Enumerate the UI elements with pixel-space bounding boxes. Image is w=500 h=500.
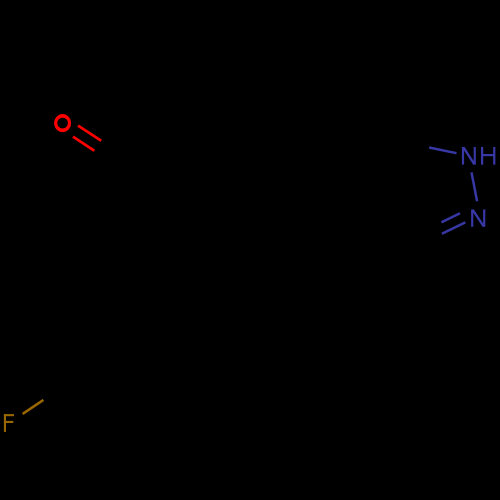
atom label F (fluorine) bbox=[4, 414, 14, 432]
fluorophenyl ring bond C5'-C4' bbox=[200, 297, 204, 370]
bond C7a-N1 blue half bbox=[429, 148, 456, 154]
indazole benzo ring bond C7-C6 bbox=[262, 92, 330, 107]
fluorophenyl ring bond C6'-C5' bbox=[143, 370, 204, 410]
bond C7a-N1 black half bbox=[390, 139, 430, 147]
bond C8-C3' bbox=[133, 168, 135, 264]
indazole ring fusion bond C3a-C7a bbox=[348, 139, 390, 187]
bond N1-N2 (blue) bbox=[472, 172, 478, 201]
bond C3=N2 blue half (main line) bbox=[442, 222, 465, 233]
indazole benzo ring bond C7a-C7 bbox=[330, 92, 390, 139]
fluorophenyl ring bond C1'-C6' bbox=[78, 377, 143, 410]
bond C3=N2 blue half (inner line) bbox=[441, 213, 460, 222]
bond C3=N2 black half (inner line) bbox=[414, 222, 441, 236]
bond F-C1' gold half bbox=[23, 400, 44, 414]
bond C8=O black half (lower line) bbox=[94, 151, 115, 165]
fluorophenyl ring bond C4'-C3' bbox=[135, 264, 200, 297]
indazole benzo ring bond C5-C4 bbox=[248, 160, 296, 205]
bond C3=N2 black half (main line) bbox=[406, 234, 442, 250]
bond C8=O black half (upper line) bbox=[101, 141, 124, 156]
fluorophenyl ring bond C2'-C1' bbox=[74, 304, 78, 377]
atom label N1 letter N (of NH) bbox=[463, 147, 475, 165]
bond C8=O red half (lower line) bbox=[73, 137, 94, 151]
atom label N1 letter H (of NH) bbox=[481, 147, 495, 165]
bond F-C1' black half bbox=[43, 377, 78, 400]
bond C8-C10 bbox=[133, 130, 196, 168]
bond C8=O red half (upper line) bbox=[78, 126, 101, 141]
atom label O (carbonyl oxygen) bbox=[54, 114, 71, 132]
indazole benzo ring bond C6-C5 bbox=[248, 107, 262, 160]
indazole benzo ring bond C4-C3a bbox=[296, 187, 348, 205]
atom label N2 letter N bbox=[472, 209, 484, 226]
fluorophenyl ring bond C3'-C2' bbox=[74, 264, 135, 304]
bond C10-C6 bbox=[196, 107, 262, 130]
pyrazole bond C3a-C3 bbox=[348, 187, 406, 249]
